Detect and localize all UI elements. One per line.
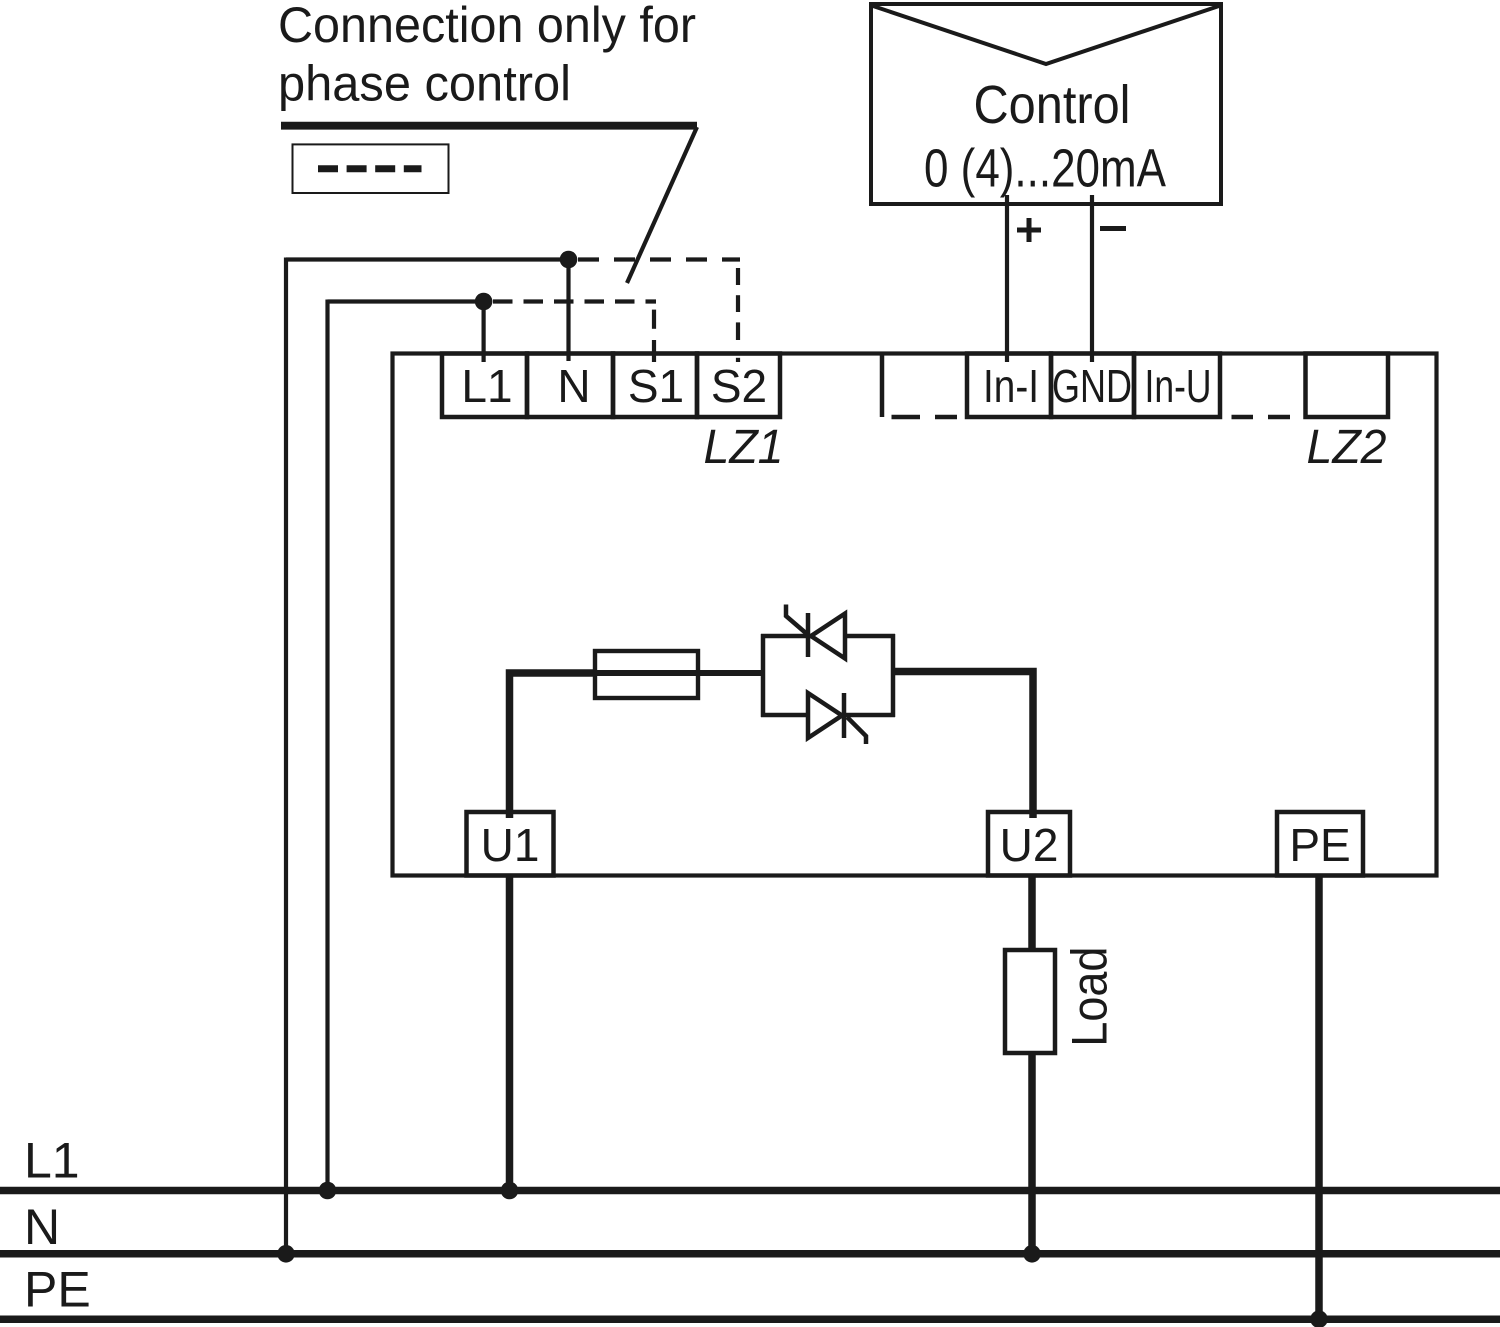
load RL — [1005, 950, 1055, 1053]
terminal (unlabelled, far right) — [1306, 354, 1389, 418]
terminal S2 — [697, 354, 780, 418]
wire: L1 feed horizontal segment — [328, 299, 484, 303]
wire: triac right to U2 (thick) — [893, 672, 1033, 819]
svg-text:S2: S2 — [711, 360, 767, 412]
terminal In-U — [1134, 354, 1220, 418]
junction: PE on PE bus — [1310, 1310, 1328, 1327]
bottom thyristor branch wire (right) — [844, 713, 895, 718]
svg-text:0 (4)...20mA: 0 (4)...20mA — [924, 139, 1166, 199]
fuse F1 — [595, 651, 698, 698]
svg-text:L1: L1 — [24, 1133, 80, 1189]
svg-text:PE: PE — [1289, 819, 1350, 871]
svg-text:GND: GND — [1052, 360, 1132, 412]
svg-text:S1: S1 — [628, 360, 684, 412]
right rail — [891, 634, 896, 717]
wire: U1 up and right to fuse (thick) — [510, 673, 596, 818]
svg-text:phase control: phase control — [278, 56, 571, 112]
svg-text:LZ1: LZ1 — [704, 421, 784, 474]
leader line (thick underline with diagonal pointer to dashed wires) — [281, 126, 697, 283]
svg-text:Connection only for: Connection only for — [278, 0, 696, 53]
junction: N feed on N bus — [277, 1245, 295, 1263]
svg-text:L1: L1 — [461, 360, 512, 412]
device outline (solid state relay body) — [393, 354, 1437, 876]
wire: L1 feed vertical down to L1 bus — [325, 300, 329, 1191]
bus L1 — [0, 1187, 1500, 1195]
junction: L1 feed / terminal L1 drop — [475, 293, 493, 311]
control source box (Control 0 (4)...20mA) — [871, 4, 1221, 204]
terminal U2 — [988, 812, 1070, 876]
triac (two antiparallel thyristors) — [761, 605, 895, 745]
terminal L1 — [442, 354, 527, 418]
wire: N feed horizontal segment — [286, 257, 569, 261]
svg-text:Control: Control — [974, 75, 1131, 135]
junction: U1 on L1 bus — [501, 1182, 519, 1200]
junction: load on N bus — [1023, 1245, 1041, 1263]
wire: through fuse to triac (thick) — [595, 670, 763, 676]
terminal In-I — [967, 354, 1051, 418]
bottom thyristor branch wire (left) — [761, 713, 808, 718]
note: "Connection only for phase control" — [278, 0, 696, 112]
terminal PE — [1277, 812, 1363, 876]
terminal strip continuation mark (right, dashed bottom) — [1232, 415, 1291, 420]
wire: control - output to terminal GND — [1090, 195, 1094, 362]
top thyristor branch wire (right) — [845, 634, 895, 639]
junction: L1 feed on L1 bus — [319, 1182, 337, 1200]
top thyristor branch wire (left) — [761, 634, 806, 639]
terminal strip continuation mark (left, dashed bottom) — [882, 355, 957, 417]
svg-text:In-I: In-I — [983, 360, 1039, 412]
top thyristor cathode bar — [806, 613, 811, 657]
bus PE — [0, 1315, 1500, 1323]
wire: U2 down to load (thick) — [1028, 876, 1036, 951]
left rail — [761, 634, 766, 717]
wire: drop into terminal L1 — [482, 302, 486, 363]
dashed wire: S2 drop (vertical) — [736, 268, 740, 362]
legend: dashed-line sample box — [293, 144, 449, 193]
svg-text:U2: U2 — [1000, 819, 1059, 871]
dashed wire: S1 drop (vertical) — [652, 310, 656, 362]
svg-text:N: N — [557, 360, 590, 412]
svg-text:In-U: In-U — [1145, 360, 1212, 412]
wire: control + output to terminal In-I — [1005, 195, 1009, 362]
terminal U1 — [467, 812, 554, 876]
bus N — [0, 1250, 1500, 1258]
wire: drop into terminal N — [566, 260, 570, 362]
terminal N — [527, 354, 613, 418]
label: + polarity — [1017, 218, 1041, 242]
label: - polarity — [1100, 226, 1126, 231]
terminal GND — [1051, 354, 1134, 418]
dashed wire: L1 junction to S1 (horizontal) — [493, 299, 656, 303]
top thyristor gate — [786, 605, 811, 638]
dashed wire: N junction to S2 (horizontal) — [578, 257, 740, 261]
svg-text:Load: Load — [1062, 947, 1118, 1047]
bottom thyristor gate — [847, 717, 866, 744]
wire: PE down to PE bus (thick) — [1315, 876, 1323, 1320]
wire: load down to N bus (thick) — [1028, 1053, 1036, 1254]
bottom thyristor triangle — [808, 693, 842, 738]
svg-text:LZ2: LZ2 — [1307, 421, 1387, 474]
wire: U1 down to L1 bus (thick) — [506, 876, 514, 1191]
svg-text:PE: PE — [24, 1261, 91, 1317]
top thyristor triangle — [811, 614, 845, 659]
junction: N feed / terminal N drop — [560, 251, 578, 269]
bottom thyristor cathode bar — [842, 693, 847, 738]
wire: N feed vertical down to N bus — [284, 258, 288, 1254]
terminal S1 — [613, 354, 697, 418]
svg-text:N: N — [24, 1199, 60, 1255]
svg-text:U1: U1 — [481, 819, 540, 871]
